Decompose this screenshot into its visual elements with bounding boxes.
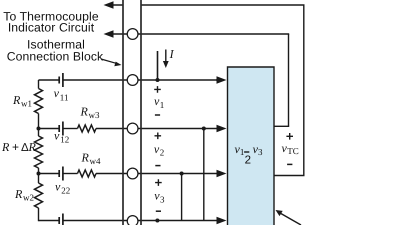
wire xyxy=(38,114,40,137)
svg-text:R: R xyxy=(12,93,21,107)
wire: vertical from row2 node down to row4 xyxy=(203,129,205,221)
node dot row3 xyxy=(180,172,184,176)
resistor Rw3 xyxy=(78,125,97,132)
label +v3- xyxy=(155,179,162,186)
svg-text:12: 12 xyxy=(60,135,69,145)
svg-text:2: 2 xyxy=(160,148,165,158)
terminal circle row 2 xyxy=(127,123,138,134)
svg-text:v: v xyxy=(54,129,60,143)
arrowhead to indicator circuit (second) xyxy=(104,30,114,38)
node dot row2 xyxy=(202,127,206,131)
arrowhead into box row 4 xyxy=(217,217,227,225)
wire: row 2 (v12 / Rw3 row, y=128.5) xyxy=(39,128,60,130)
battery v22 long bar xyxy=(62,167,64,181)
wire: stub into box right side (vTC minus lead) xyxy=(274,175,305,177)
terminal circle row 0 xyxy=(127,29,138,40)
wire: row 1 (v11 row, y=80) xyxy=(39,79,60,81)
wire: row -1 left segment to indicator xyxy=(106,4,123,6)
wire: inner vertical from row 0 xyxy=(288,34,290,126)
svg-text:11: 11 xyxy=(60,92,69,102)
wire xyxy=(38,208,40,221)
resistor Rw1 xyxy=(35,89,43,114)
battery v12 long bar xyxy=(62,122,64,136)
arrowhead to indicator circuit (top) xyxy=(104,1,114,9)
battery v11 long bar xyxy=(62,73,64,87)
svg-text:w3: w3 xyxy=(89,110,100,120)
battery v22 short bar xyxy=(58,170,60,177)
battery (bottom) long bar xyxy=(62,214,64,226)
arrowhead into box row 2 xyxy=(217,125,227,133)
current arrow I xyxy=(165,50,167,63)
annotation arrow to block temperature xyxy=(280,213,301,225)
svg-text:3: 3 xyxy=(160,194,165,204)
battery v11 short bar xyxy=(58,77,60,84)
pointer line from label to block xyxy=(101,59,117,64)
arrowhead into box row 1 xyxy=(217,76,227,84)
wire: stub into box right side (vTC plus lead) xyxy=(274,125,289,127)
wire: current feed vertical xyxy=(157,51,159,80)
wire: row 3 (v22 / Rw4 row, y=173.5) xyxy=(39,173,60,175)
battery v12 short bar xyxy=(58,125,60,132)
wire: row 4 (bottom emf row, y=220.5) xyxy=(39,220,60,222)
resistor Rw4 xyxy=(78,170,97,177)
label + vTC - output xyxy=(286,133,293,140)
node dot row1/current feed xyxy=(156,78,160,82)
terminal circle row 3 xyxy=(127,168,138,179)
svg-text:R: R xyxy=(28,140,37,154)
svg-text:TC: TC xyxy=(287,146,299,156)
resistor Rw2 xyxy=(35,183,43,208)
svg-text:1: 1 xyxy=(160,100,165,110)
wire: vertical from row3 node down to row4 xyxy=(181,174,183,221)
arrowhead into box row 3 xyxy=(217,170,227,178)
wire: row 0 left segment to indicator xyxy=(106,33,128,35)
label +v1- xyxy=(154,86,161,93)
svg-text:w2: w2 xyxy=(23,193,34,203)
isothermal connection block strip right line xyxy=(140,0,142,225)
terminal circle row 4 xyxy=(127,216,138,227)
function block (v1-v3)/2 blue box xyxy=(228,67,275,226)
svg-text:v: v xyxy=(55,180,61,194)
left sensor chain vertical wire xyxy=(38,80,40,89)
svg-text:w4: w4 xyxy=(90,156,101,166)
svg-text:Indicator Circuit: Indicator Circuit xyxy=(8,20,95,34)
svg-text:3: 3 xyxy=(258,147,263,157)
node dot chain/row3 xyxy=(37,172,41,176)
wire: row 0 right segment xyxy=(138,33,289,35)
battery (bottom) short bar xyxy=(58,217,60,224)
isothermal connection block strip left line xyxy=(122,0,124,225)
wire: row -1 right segment xyxy=(141,4,305,6)
svg-text:22: 22 xyxy=(61,186,70,196)
label +v2- xyxy=(155,133,162,140)
svg-text:+: + xyxy=(12,140,19,154)
svg-text:2: 2 xyxy=(245,155,251,167)
node dot row4 xyxy=(155,219,159,223)
svg-text:v: v xyxy=(54,86,60,100)
svg-text:Connection Block: Connection Block xyxy=(7,50,104,64)
terminal circle row 1 xyxy=(127,75,138,86)
wire xyxy=(38,168,40,183)
svg-text:R: R xyxy=(80,105,89,119)
svg-text:w1: w1 xyxy=(21,99,32,109)
resistor R+dR xyxy=(35,136,43,168)
svg-text:R: R xyxy=(14,187,23,201)
svg-text:R: R xyxy=(81,151,90,165)
node dot chain/row2 xyxy=(37,127,41,131)
svg-text:R: R xyxy=(1,140,10,154)
wire: right outer vertical from row -1 xyxy=(303,5,305,176)
